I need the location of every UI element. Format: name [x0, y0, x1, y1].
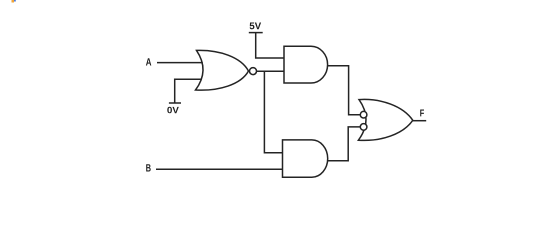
- OR gate U4 upper input bubble: [360, 111, 367, 118]
- wire bottom AND output to OR lower input: [328, 127, 361, 161]
- wire A input: [157, 62, 203, 64]
- wire 5V to top AND input: [256, 33, 284, 58]
- wire NOR output to top AND input: [257, 70, 284, 72]
- label F: [420, 110, 424, 117]
- label B: [146, 164, 151, 171]
- stray crop mark blue: [14, 0, 16, 2]
- wire F output: [413, 120, 426, 122]
- wire 0V to NOR lower input: [175, 79, 202, 103]
- AND gate U2 (top) body: [284, 46, 328, 83]
- AND gate U3 (bottom) body: [283, 140, 328, 177]
- ground bar 0V: [169, 102, 181, 104]
- OR gate U4 body: [358, 99, 412, 140]
- wire branch down to bottom AND input: [264, 71, 282, 153]
- power bar 5V: [249, 32, 263, 34]
- wire B input: [156, 168, 283, 170]
- OR gate U4 lower input bubble: [360, 124, 367, 131]
- wire top AND output to OR upper input: [328, 66, 361, 115]
- label 5V: [250, 22, 261, 29]
- stray crop mark orange: [12, 0, 15, 3]
- NOR gate U1 output bubble: [250, 68, 257, 75]
- NOR gate U1 body: [196, 50, 249, 90]
- label A: [146, 58, 151, 65]
- label 0V: [167, 107, 179, 114]
